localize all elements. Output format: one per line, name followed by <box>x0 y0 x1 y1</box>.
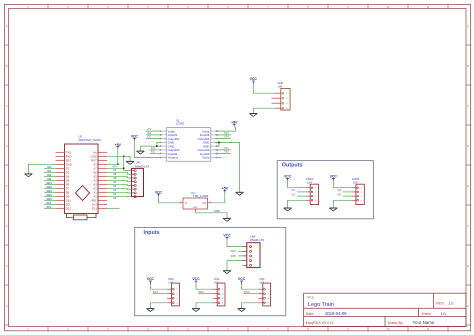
svg-text:L293D: L293D <box>176 121 184 125</box>
svg-text:IN3: IN3 <box>224 150 229 154</box>
svg-text:5V: 5V <box>93 162 97 166</box>
svg-text:IO3: IO3 <box>337 188 342 192</box>
svg-text:A5: A5 <box>113 176 117 180</box>
svg-text:D4: D4 <box>66 174 70 178</box>
svg-text:G: G <box>467 264 469 268</box>
svg-text:GND: GND <box>91 154 97 158</box>
svg-text:D7: D7 <box>66 186 70 190</box>
svg-text:IO3: IO3 <box>224 146 229 150</box>
svg-text:1/1: 1/1 <box>441 311 447 316</box>
svg-text:3V3: 3V3 <box>92 202 97 206</box>
svg-text:D8: D8 <box>66 190 70 194</box>
svg-text:+5V: +5V <box>147 127 152 131</box>
svg-text:PINHD-1X5: PINHD-1X5 <box>250 238 265 242</box>
svg-text:VCC: VCC <box>192 277 200 281</box>
svg-text:H: H <box>6 304 8 308</box>
svg-text:TSR_1-2450: TSR_1-2450 <box>193 194 209 198</box>
svg-text:H: H <box>467 304 469 308</box>
svg-text:IN2: IN2 <box>151 150 156 154</box>
svg-text:A6: A6 <box>93 170 97 174</box>
svg-text:SW5: SW5 <box>46 197 52 201</box>
svg-text:A2: A2 <box>93 186 97 190</box>
svg-text:D5: D5 <box>66 178 70 182</box>
svg-text:+5V: +5V <box>231 120 238 124</box>
svg-text:A: A <box>467 24 469 28</box>
svg-text:Date:: Date: <box>306 312 315 316</box>
svg-text:SP1: SP1 <box>47 201 52 205</box>
svg-text:A: A <box>6 24 8 28</box>
svg-text:A5: A5 <box>93 174 97 178</box>
svg-text:C: C <box>6 104 8 108</box>
svg-text:A4: A4 <box>93 178 97 182</box>
svg-text:SW2: SW2 <box>46 185 52 189</box>
svg-text:JP1: JP1 <box>136 161 141 165</box>
svg-text:IN4: IN4 <box>47 177 52 181</box>
svg-text:IO4: IO4 <box>224 135 229 139</box>
svg-text:IN2: IN2 <box>47 169 52 173</box>
svg-text:A2: A2 <box>113 188 117 192</box>
svg-text:A0: A0 <box>93 194 97 198</box>
svg-text:RST: RST <box>66 158 72 162</box>
svg-text:D3: D3 <box>66 170 70 174</box>
svg-text:RXD: RXD <box>66 154 72 158</box>
svg-text:PINHD-1X8: PINHD-1X8 <box>135 164 150 168</box>
svg-text:Lego Train: Lego Train <box>308 302 334 308</box>
svg-text:IN1: IN1 <box>147 131 152 135</box>
svg-text:CN3: CN3 <box>168 277 174 281</box>
svg-text:A3: A3 <box>93 182 97 186</box>
svg-text:IO1: IO1 <box>291 188 296 192</box>
svg-text:CN1: CN1 <box>259 277 265 281</box>
svg-text:CN4: CN4 <box>250 235 256 239</box>
svg-text:E: E <box>6 184 8 188</box>
svg-text:CNO1: CNO1 <box>306 177 314 181</box>
svg-text:+5V: +5V <box>115 143 122 147</box>
svg-text:A7: A7 <box>93 166 97 170</box>
svg-text:VCC: VCC <box>131 134 139 138</box>
svg-text:SW2: SW2 <box>198 290 204 294</box>
svg-text:B: B <box>467 64 469 68</box>
svg-text:VCC: VCC <box>238 277 246 281</box>
svg-text:SP2: SP2 <box>47 205 52 209</box>
svg-text:D9: D9 <box>66 194 70 198</box>
svg-text:B: B <box>6 64 8 68</box>
svg-text:Vmotors: Vmotors <box>168 156 179 160</box>
svg-text:VCC: VCC <box>147 277 155 281</box>
svg-text:D13: D13 <box>92 206 98 210</box>
svg-text:D: D <box>467 144 469 148</box>
svg-text:CN2: CN2 <box>214 277 220 281</box>
svg-text:SW3: SW3 <box>244 290 250 294</box>
svg-text:E: E <box>467 184 469 188</box>
svg-text:D11: D11 <box>66 202 71 206</box>
svg-text:IO2: IO2 <box>151 146 156 150</box>
svg-text:A3: A3 <box>113 184 117 188</box>
svg-text:SW1: SW1 <box>153 290 159 294</box>
svg-text:A7: A7 <box>113 168 117 172</box>
svg-text:IO4: IO4 <box>337 192 342 196</box>
svg-text:Drawn By:: Drawn By: <box>388 321 404 325</box>
svg-text:Outputs: Outputs <box>282 162 303 168</box>
svg-text:Your Name: Your Name <box>413 320 435 325</box>
svg-text:SW4: SW4 <box>46 193 52 197</box>
svg-text:VI: VI <box>185 201 188 205</box>
svg-text:Vchip: Vchip <box>202 156 210 160</box>
svg-text:IN3: IN3 <box>47 173 52 177</box>
svg-text:D: D <box>6 144 8 148</box>
svg-text:C: C <box>467 104 469 108</box>
svg-text:GND: GND <box>66 162 72 166</box>
svg-text:A6: A6 <box>113 172 117 176</box>
svg-text:IO2: IO2 <box>291 192 296 196</box>
svg-text:REV:: REV: <box>436 302 444 306</box>
svg-text:1.0: 1.0 <box>448 302 453 306</box>
svg-text:D6: D6 <box>66 182 70 186</box>
svg-text:REF: REF <box>91 198 97 202</box>
svg-text:D12: D12 <box>66 206 72 210</box>
svg-text:A1: A1 <box>93 190 97 194</box>
svg-text:+5V: +5V <box>222 187 229 191</box>
svg-text:ARDUINO_NANO: ARDUINO_NANO <box>79 138 102 142</box>
svg-text:SW5: SW5 <box>230 255 236 258</box>
svg-text:Sheet:: Sheet: <box>421 312 431 316</box>
svg-text:SW1: SW1 <box>46 181 52 185</box>
svg-text:A4: A4 <box>113 180 117 184</box>
svg-text:Vin: Vin <box>93 150 97 154</box>
svg-text:TXD: TXD <box>66 150 72 154</box>
svg-text:CNO2: CNO2 <box>352 177 360 181</box>
svg-text:+5V: +5V <box>112 164 117 168</box>
svg-text:GND: GND <box>214 209 220 213</box>
svg-text:VCC: VCC <box>250 77 258 81</box>
svg-text:VCC: VCC <box>223 234 231 238</box>
svg-text:EasyEDA V5.3.14: EasyEDA V5.3.14 <box>306 321 334 325</box>
svg-text:1X4: 1X4 <box>278 85 283 89</box>
svg-text:D2: D2 <box>66 166 70 170</box>
svg-text:VCC: VCC <box>330 175 338 179</box>
svg-text:VCC: VCC <box>155 190 163 194</box>
svg-text:TITLE:: TITLE: <box>307 296 315 300</box>
svg-text:A1: A1 <box>113 192 117 196</box>
svg-text:D10: D10 <box>66 198 72 202</box>
svg-text:SW4: SW4 <box>230 250 236 253</box>
svg-text:2018-04-09: 2018-04-09 <box>325 311 347 316</box>
svg-text:RST: RST <box>91 158 97 162</box>
svg-text:SW3: SW3 <box>46 189 52 193</box>
svg-text:IN4: IN4 <box>224 131 229 135</box>
svg-text:Inputs: Inputs <box>144 230 160 236</box>
svg-text:GND: GND <box>193 207 198 209</box>
svg-text:A0: A0 <box>113 196 117 200</box>
svg-text:IO1: IO1 <box>147 135 152 139</box>
svg-text:VCC: VCC <box>284 175 292 179</box>
svg-text:CN5: CN5 <box>278 81 284 85</box>
svg-text:IN1: IN1 <box>47 165 52 169</box>
svg-text:G: G <box>5 264 7 268</box>
